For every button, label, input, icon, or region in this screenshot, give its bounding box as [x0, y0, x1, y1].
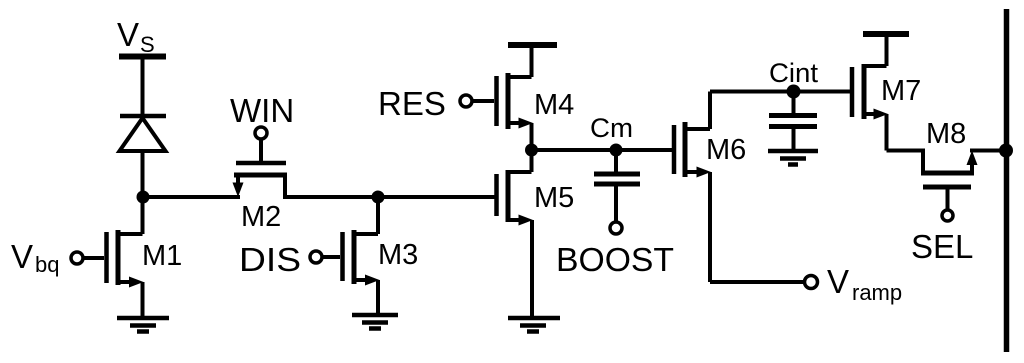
svg-text:M3: M3 — [378, 239, 418, 271]
svg-text:M6: M6 — [706, 134, 746, 166]
svg-text:M1: M1 — [142, 240, 182, 272]
svg-text:V: V — [827, 263, 849, 300]
svg-text:BOOST: BOOST — [556, 241, 674, 278]
svg-text:S: S — [140, 32, 155, 57]
svg-text:SEL: SEL — [911, 228, 973, 265]
svg-text:M7: M7 — [881, 75, 921, 107]
svg-text:RES: RES — [378, 85, 446, 122]
svg-text:V: V — [11, 238, 33, 275]
svg-text:V: V — [117, 16, 139, 53]
svg-text:Cm: Cm — [590, 113, 633, 143]
svg-text:ramp: ramp — [852, 280, 902, 305]
svg-text:bq: bq — [35, 252, 59, 277]
svg-text:M2: M2 — [241, 201, 281, 233]
svg-text:M4: M4 — [534, 89, 574, 121]
svg-text:DIS: DIS — [239, 241, 301, 278]
svg-text:M8: M8 — [926, 118, 966, 150]
svg-text:M5: M5 — [534, 182, 574, 214]
svg-text:Cint: Cint — [769, 58, 819, 88]
svg-text:WIN: WIN — [230, 92, 294, 129]
